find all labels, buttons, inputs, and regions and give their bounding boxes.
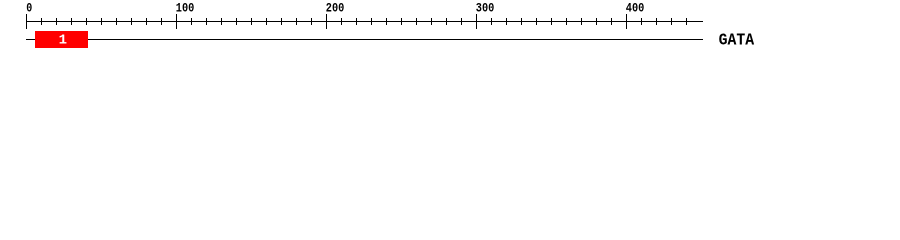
svg-text:0: 0 (26, 1, 32, 16)
ruler tick label 300 (476, 1, 495, 16)
svg-text:400: 400 (626, 1, 645, 16)
ruler major tick 100 (176, 14, 177, 29)
feature track baseline (GATA track) (26, 39, 703, 40)
ruler line (26, 21, 703, 22)
svg-text:1: 1 (59, 33, 67, 49)
ruler tick label 200 (326, 1, 345, 16)
ruler tick label 400 (626, 1, 645, 16)
ruler tick label 0 (26, 1, 32, 16)
ruler tick label 100 (176, 1, 195, 16)
svg-text:300: 300 (476, 1, 495, 16)
background (0, 0, 900, 58)
svg-text:200: 200 (326, 1, 345, 16)
ruler major tick 300 (476, 14, 477, 29)
ruler major tick 200 (326, 14, 327, 29)
feature box 1 (red, GATA motif hit) (35, 31, 88, 48)
svg-text:100: 100 (176, 1, 195, 16)
svg-text:GATA: GATA (719, 32, 755, 51)
ruler minor ticks (41, 18, 687, 25)
ruler major tick 400 (626, 14, 627, 29)
ruler major tick 0 (26, 14, 27, 29)
